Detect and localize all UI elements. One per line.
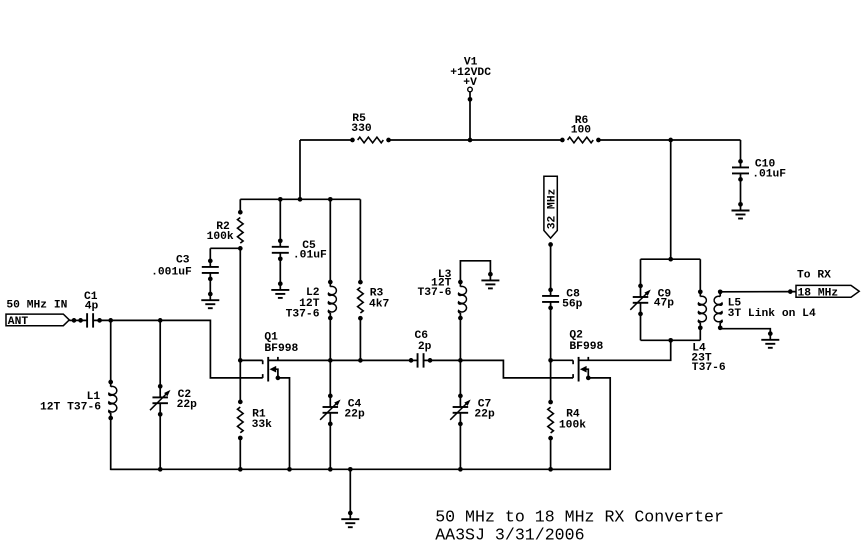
resistor R6 (560, 137, 601, 143)
label C10 .01uF (752, 159, 786, 181)
svg-text:4p: 4p (85, 300, 99, 312)
ground (L5) (761, 331, 779, 348)
svg-text:4k7: 4k7 (369, 298, 390, 310)
svg-text:Q2: Q2 (569, 330, 583, 342)
net flag 18 MHz (796, 285, 859, 299)
junction: bias node / Q1 gate 2 (238, 358, 243, 363)
svg-text:T37-6: T37-6 (286, 309, 320, 321)
wire: L4 to tank bottom (699, 328, 701, 341)
junction: input node / C2 (158, 318, 163, 323)
junction: bus / ground stub (348, 467, 353, 472)
junction: drain line / R3 (358, 358, 363, 363)
ground (C5) (271, 281, 289, 298)
wire: Q2 gate 2 lead (551, 359, 574, 361)
wire: Q2 source to ground bus (551, 378, 611, 469)
wire: C6 to Q2 gate 1 (430, 360, 573, 378)
junction: Q2 gate 2 node (548, 358, 553, 363)
ground (main bus) (341, 511, 359, 528)
wire: +V rail right segment (598, 139, 740, 141)
label C1 4p (84, 291, 98, 312)
resistor R2 (238, 210, 244, 251)
svg-text:100k: 100k (207, 231, 234, 243)
capacitor C5 (272, 238, 289, 261)
label R2 100k (207, 221, 234, 243)
svg-text:Q1: Q1 (264, 332, 278, 344)
resistor R1 (238, 400, 244, 441)
junction: tank bottom / Q2 drain (668, 338, 673, 343)
junction: rail to mixer tank drop (668, 138, 673, 143)
wire: ANT to C1 (69, 319, 81, 321)
wire: C7 to ground bus (459, 424, 461, 469)
wire: Q1 drain line (268, 359, 411, 361)
wire: rail to C10 (740, 140, 742, 162)
ground (L3) (481, 272, 499, 289)
wire: drain line to C4 (329, 360, 331, 396)
junction: supply rail / C5 (278, 197, 283, 202)
net flag ANT (6, 314, 76, 328)
junction: bus / C4 (328, 467, 333, 472)
svg-text:.01uF: .01uF (293, 250, 327, 262)
svg-text:22p: 22p (344, 409, 365, 421)
wire: +V rail left segment (300, 139, 352, 141)
wire: L3 to C6 node (459, 318, 461, 361)
wire: rail drop to Q1 drain rail (299, 140, 301, 199)
capacitor C1 (78, 313, 102, 327)
wire: R3 to Q1 drain line (359, 318, 361, 361)
junction: bus / C7 (458, 467, 463, 472)
junction: input node / L1 (108, 318, 113, 323)
wire: C8 to Q2 gate 2 node (550, 308, 552, 402)
label C9 47p (654, 288, 675, 309)
wire: input node to L1 (110, 320, 112, 382)
label C2 22p (177, 389, 198, 411)
svg-text:50 MHz IN: 50 MHz IN (6, 300, 67, 312)
junction: supply rail / R5 drop (298, 197, 303, 202)
wire: C6 node to C7 (459, 360, 461, 396)
wire: rail drop to tank (670, 140, 672, 259)
resistor R4 (548, 400, 554, 441)
inductor L1 (108, 380, 116, 421)
label R6 100 (571, 115, 592, 137)
svg-text:.001uF: .001uF (151, 267, 192, 279)
svg-text:22p: 22p (474, 409, 495, 421)
label C5 .01uF (293, 240, 327, 262)
net flag 32 MHz (544, 176, 559, 247)
capacitor C6 (409, 353, 433, 367)
svg-text:3T Link on L4: 3T Link on L4 (728, 308, 816, 320)
label Q2 BF998 (569, 330, 603, 354)
label Q1 BF998 (264, 332, 298, 355)
capacitor C8 (542, 288, 559, 311)
transistor Q2 BF998 (dual-gate MOSFET) (573, 357, 591, 382)
label R1 33k (252, 409, 273, 432)
junction: 18 MHz flag pin (788, 289, 793, 294)
junction: V1 stub to +V rail (468, 138, 473, 143)
svg-text:+V: +V (463, 77, 477, 89)
label title: 50 MHz to 18 MHz RX Converter (435, 507, 724, 526)
wire: L5 to ground (720, 328, 770, 334)
resistor R3 (358, 280, 364, 321)
label L1 12T T37-6 (40, 391, 101, 414)
wire: R4 to ground bus (550, 438, 552, 469)
wire: C5 to ground (279, 259, 281, 284)
label C8 56p (562, 289, 583, 311)
wire: +V rail middle segment (389, 139, 563, 141)
wire: C4 to ground bus (329, 424, 331, 469)
label L3 12T T37-6 (417, 269, 451, 299)
wire: L1 to ground bus (111, 418, 161, 469)
wire: tank top to C9 (640, 259, 642, 286)
label L5 3T Link on L4 (728, 298, 816, 320)
wire: L3 top to ground (460, 261, 490, 283)
svg-text:50 MHz to 18 MHz RX Converter: 50 MHz to 18 MHz RX Converter (435, 507, 724, 526)
inductor L4 (698, 289, 706, 330)
svg-text:12T T37-6: 12T T37-6 (40, 402, 101, 414)
inductor L3 (458, 280, 466, 321)
svg-text:BF998: BF998 (264, 343, 298, 355)
svg-text:330: 330 (351, 123, 372, 135)
wire: C1 to Q1 gate 1 (node A) (100, 320, 263, 378)
variable capacitor C9 (630, 284, 651, 317)
inductor L5 (3T link on L4) (714, 289, 722, 330)
junction: bus / Q1 source (287, 467, 292, 472)
svg-text:BF998: BF998 (569, 341, 603, 353)
wire: input node to C2 (159, 320, 161, 386)
svg-text:32 MHz: 32 MHz (547, 189, 559, 230)
variable capacitor C2 (150, 384, 171, 417)
label C4 22p (344, 398, 365, 420)
wire: rail to R3 (359, 199, 361, 282)
label 50 MHz IN (6, 300, 67, 312)
transistor Q1 BF998 (dual-gate MOSFET) (263, 357, 281, 382)
junction: C6 node / L3+C7 (458, 358, 463, 363)
junction: bus / C2 (158, 467, 163, 472)
label C6 2p (415, 330, 432, 353)
wire: L2 to Q1 drain line (329, 318, 331, 360)
label R5 330 (351, 113, 372, 135)
wire: Q1 gate 2 lead (240, 359, 262, 361)
label C3 .001uF (151, 255, 192, 279)
svg-text:.01uF: .01uF (752, 169, 786, 181)
variable capacitor C4 (320, 394, 341, 427)
label C7 22p (474, 398, 495, 420)
wire: Q2 drain to tank (579, 340, 671, 360)
junction: tank top (668, 257, 673, 262)
svg-text:56p: 56p (562, 298, 583, 310)
capacitor C3 (202, 248, 219, 281)
svg-text:T37-6: T37-6 (417, 287, 451, 299)
ground (C3) (201, 292, 219, 309)
svg-text:To RX: To RX (797, 270, 831, 282)
svg-text:100k: 100k (559, 419, 586, 431)
wire: R2 to gate2 node and R1 (239, 248, 241, 402)
capacitor C10 (732, 159, 749, 182)
power symbol V1 +12VDC (+V) (468, 87, 473, 140)
wire: R1 to ground bus (239, 438, 241, 469)
wire: C3 to ground (209, 279, 211, 294)
junction: bus / R1 (238, 467, 243, 472)
variable capacitor C7 (450, 394, 471, 427)
ground (C10) (732, 202, 750, 219)
wire: C10 to ground (740, 179, 742, 205)
label R4 100k (559, 408, 586, 431)
junction: bus / R4 (548, 467, 553, 472)
wire: bus ground stub (349, 469, 351, 513)
svg-text:2p: 2p (418, 341, 432, 353)
wire: 32 MHz flag to C8 (550, 245, 552, 291)
wire: rail to L2 (329, 199, 331, 282)
svg-text:18 MHz: 18 MHz (798, 287, 839, 299)
label L2 12T T37-6 (286, 287, 320, 321)
svg-text:47p: 47p (654, 298, 675, 310)
label title: AA3SJ 3/31/2006 (435, 525, 584, 544)
inductor L2 (328, 280, 336, 321)
wire: Q1 supply rail (240, 198, 360, 200)
wire: tank top bar (641, 258, 701, 260)
wire: ground bus (111, 468, 611, 470)
wire: C2 to ground bus (159, 414, 161, 469)
svg-text:22p: 22p (177, 399, 198, 411)
svg-text:C3: C3 (176, 255, 190, 267)
resistor R5 (350, 137, 391, 143)
label L4 23T T37-6 (691, 343, 726, 374)
svg-text:AA3SJ 3/31/2006: AA3SJ 3/31/2006 (435, 525, 584, 544)
wire: C9 to tank bottom (640, 314, 642, 340)
wire: tank bottom bar (641, 339, 701, 341)
label V1 +12VDC +V (450, 57, 491, 90)
label To RX (797, 270, 831, 282)
wire: Q1 source to ground bus (278, 378, 290, 469)
junction: supply rail / L2 (328, 197, 333, 202)
wire: C3 tap (210, 247, 240, 249)
wire: L5 to 18 MHz flag (720, 291, 796, 293)
label R3 4k7 (369, 288, 390, 311)
wire: tank top to L4 (699, 259, 701, 292)
svg-text:100: 100 (571, 125, 592, 137)
wire: rail to C5 (279, 199, 281, 241)
svg-text:ANT: ANT (8, 316, 29, 328)
junction: drain line / L2+C4 (328, 358, 333, 363)
wire: rail to R2 (239, 199, 241, 212)
svg-text:T37-6: T37-6 (692, 362, 726, 374)
svg-text:33k: 33k (252, 419, 273, 431)
